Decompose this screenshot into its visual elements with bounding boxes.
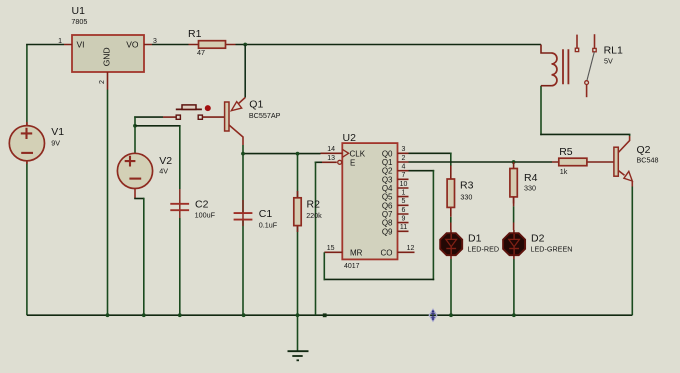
junction Q1 collector / C1 (241, 152, 245, 156)
svg-text:LED-GREEN: LED-GREEN (531, 245, 573, 254)
svg-text:R3: R3 (460, 180, 474, 192)
IC U2 4017 (321, 143, 415, 259)
svg-text:47: 47 (197, 48, 205, 57)
svg-text:1: 1 (58, 38, 62, 45)
svg-text:BC557AP: BC557AP (249, 111, 281, 120)
junction C1 at rail (242, 313, 246, 317)
svg-text:4: 4 (402, 164, 406, 171)
capacitor C1 (234, 154, 253, 226)
regulator U1 box (64, 35, 152, 90)
wire C1 bottom to rail (242, 226, 244, 315)
wire U1 GND pin down to ground rail (107, 90, 109, 316)
junction D1 at rail (449, 313, 453, 317)
svg-text:14: 14 (327, 146, 335, 153)
svg-text:Q8: Q8 (382, 219, 393, 228)
wire node to C2 (135, 126, 181, 189)
svg-text:6: 6 (402, 207, 406, 214)
svg-text:7805: 7805 (71, 17, 87, 26)
junction V2 at rail (142, 313, 146, 317)
resistor R5 (552, 158, 614, 166)
svg-text:Q1: Q1 (382, 158, 393, 167)
wire E pin to ground rail (315, 162, 322, 316)
svg-text:GND: GND (102, 47, 112, 66)
svg-text:15: 15 (327, 245, 335, 252)
junction D2 at rail (512, 313, 516, 317)
svg-text:E: E (350, 158, 355, 167)
wire U1 pin3 to R1 (152, 44, 189, 46)
junction top rail / Q1 emitter (243, 43, 247, 47)
svg-text:5: 5 (402, 198, 406, 205)
resistor R2 (294, 154, 301, 232)
voltage source V1 (9, 122, 44, 164)
svg-text:Q0: Q0 (382, 149, 393, 158)
wire Q2 output (pin4) loop to MR (324, 170, 435, 280)
svg-text:Q5: Q5 (382, 193, 393, 202)
svg-text:Q2: Q2 (637, 144, 651, 156)
svg-text:CO: CO (381, 248, 393, 257)
wire Q1 collector to CLK node (242, 145, 320, 154)
svg-text:D2: D2 (531, 233, 545, 245)
svg-text:9V: 9V (51, 138, 60, 147)
wire node to V2 top (134, 126, 136, 154)
svg-text:9: 9 (402, 216, 406, 223)
svg-text:330: 330 (524, 183, 536, 192)
svg-text:C1: C1 (259, 208, 273, 220)
svg-text:10: 10 (400, 181, 408, 188)
svg-text:CLK: CLK (350, 149, 366, 158)
svg-text:13: 13 (327, 155, 335, 162)
svg-text:12: 12 (407, 245, 415, 252)
svg-text:3: 3 (402, 146, 406, 153)
junction R4 top node (512, 160, 516, 164)
wire bottom ground rail (27, 314, 632, 316)
wire Q1 to R4/R5 node (409, 161, 553, 163)
svg-text:VI: VI (77, 39, 85, 49)
wire Q1 emitter to top rail (244, 45, 246, 98)
wire left vertical V1 bottom to ground rail (26, 161, 28, 315)
svg-text:11: 11 (400, 224, 407, 231)
wire Q2 emitter to ground rail (631, 187, 633, 316)
svg-text:3: 3 (153, 38, 157, 45)
transistor Q1 (225, 98, 246, 146)
svg-text:U1: U1 (72, 5, 86, 17)
origin marker (429, 309, 437, 321)
svg-text:100uF: 100uF (195, 211, 216, 220)
junction square on ground rail (323, 313, 327, 317)
voltage source V2 (117, 153, 152, 198)
svg-text:BC548: BC548 (637, 156, 659, 165)
wire D2 to rail (513, 259, 515, 315)
svg-text:R5: R5 (559, 146, 573, 158)
svg-text:5V: 5V (604, 57, 613, 66)
svg-text:VO: VO (126, 39, 139, 49)
wire relay coil to Q2 collector (540, 86, 630, 136)
svg-text:0.1uF: 0.1uF (259, 221, 278, 230)
wire button to V2 node (134, 116, 163, 126)
wire R1 to relay coil (top rail) (236, 44, 542, 46)
svg-text:U2: U2 (343, 132, 357, 144)
wire D1 to rail (450, 259, 452, 315)
wire C2 bottom to rail (179, 218, 181, 315)
junction U1 GND at rail (106, 313, 110, 317)
svg-text:1k: 1k (560, 167, 568, 176)
svg-text:1: 1 (402, 190, 406, 197)
resistor R4 (510, 162, 517, 204)
svg-text:4017: 4017 (344, 263, 360, 270)
svg-text:V2: V2 (159, 155, 172, 167)
wire R4 to D2 (513, 197, 515, 230)
transistor Q2 (614, 136, 632, 187)
svg-text:Q3: Q3 (382, 175, 393, 184)
svg-text:2: 2 (99, 80, 106, 84)
svg-text:Q6: Q6 (382, 201, 393, 210)
svg-text:RL1: RL1 (604, 44, 623, 56)
svg-text:R1: R1 (188, 28, 202, 40)
svg-text:330: 330 (460, 192, 472, 201)
junction C2 at rail (178, 313, 182, 317)
wire R3 to D1 (450, 214, 452, 231)
svg-text:7: 7 (402, 172, 406, 179)
LED D2 (503, 230, 525, 259)
svg-text:LED-RED: LED-RED (468, 245, 500, 254)
wire top rail V1 to U1 pin 1 (26, 45, 64, 126)
junction R2 top (296, 152, 300, 156)
wire R2 bottom to rail (297, 232, 299, 315)
resistor R1 (189, 41, 236, 49)
svg-text:D1: D1 (468, 233, 482, 245)
wire Q0 to R3 (409, 153, 452, 167)
svg-text:R4: R4 (524, 172, 538, 184)
svg-text:2: 2 (402, 155, 406, 162)
relay RL1 (541, 34, 596, 97)
ground (288, 315, 309, 360)
svg-text:220k: 220k (306, 211, 322, 220)
svg-text:V1: V1 (51, 126, 64, 138)
svg-text:R2: R2 (307, 198, 321, 210)
svg-text:MR: MR (350, 248, 363, 257)
junction R2 ground node (296, 313, 300, 317)
svg-text:Q9: Q9 (382, 227, 393, 236)
svg-text:4V: 4V (159, 167, 168, 176)
capacitor C2 (170, 189, 189, 218)
LED D1 (440, 230, 462, 259)
resistor R3 (447, 166, 454, 214)
svg-text:C2: C2 (195, 198, 209, 210)
svg-text:Q1: Q1 (249, 99, 263, 111)
wire V2 bottom jog to ground rail (134, 198, 144, 316)
junction V2 node (133, 124, 137, 128)
push button (163, 105, 225, 119)
